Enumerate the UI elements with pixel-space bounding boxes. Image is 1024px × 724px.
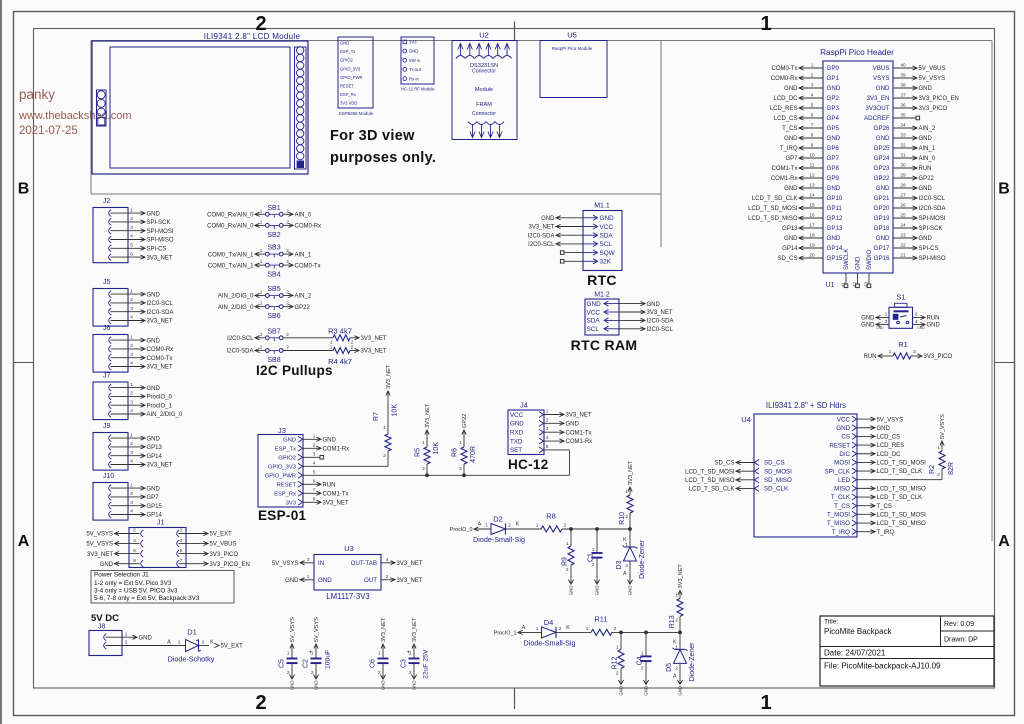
- svg-text:GP19: GP19: [874, 215, 890, 222]
- svg-text:5: 5: [546, 444, 549, 449]
- svg-text:19: 19: [809, 242, 815, 247]
- svg-text:3V3_NET: 3V3_NET: [147, 463, 173, 469]
- svg-text:82R: 82R: [948, 462, 955, 475]
- J9 pin 1 GND: [109, 435, 112, 442]
- svg-text:LCD_CS: LCD_CS: [877, 435, 901, 441]
- svg-text:+: +: [309, 649, 313, 656]
- J2 pin 3 SPI-MOSI: [109, 227, 112, 234]
- svg-text:GND: GND: [784, 86, 798, 92]
- svg-text:GND: GND: [827, 135, 841, 142]
- svg-text:RaspPi Pico Module: RaspPi Pico Module: [552, 46, 593, 51]
- U1 pin 8 GND: [800, 137, 823, 139]
- svg-text:A: A: [998, 533, 1010, 550]
- zone tick bottom: [514, 688, 516, 709]
- M1.1 pin GND: [583, 217, 597, 219]
- J2 pin 1 GND: [109, 210, 112, 217]
- svg-text:GND: GND: [147, 211, 161, 217]
- svg-text:SD_CLK: SD_CLK: [764, 486, 789, 493]
- svg-text:GND: GND: [861, 316, 875, 322]
- svg-text:ESP-01: ESP-01: [258, 508, 307, 523]
- svg-text:T_IRQ: T_IRQ: [877, 530, 895, 536]
- svg-text:1: 1: [625, 489, 628, 494]
- svg-text:1: 1: [178, 640, 181, 645]
- svg-text:GP10: GP10: [827, 195, 843, 202]
- svg-text:OUT: OUT: [364, 577, 377, 584]
- J9 pin 2 GP13: [109, 444, 112, 451]
- svg-text:SQW: SQW: [600, 250, 616, 257]
- svg-text:20: 20: [809, 252, 815, 257]
- svg-text:SD_MOSI: SD_MOSI: [764, 468, 792, 475]
- svg-text:GP17: GP17: [874, 245, 890, 252]
- svg-text:2: 2: [130, 216, 133, 221]
- J5 pin 1 GND: [109, 291, 112, 298]
- svg-text:J3: J3: [278, 426, 286, 435]
- svg-text:T_CS: T_CS: [877, 504, 892, 510]
- diode D2: [474, 527, 479, 531]
- svg-text:VBUS: VBUS: [873, 65, 890, 72]
- J9 pin 3 GP14: [109, 452, 112, 459]
- U3 pin 1 GND: [301, 579, 314, 581]
- LCD screen: [110, 47, 290, 168]
- svg-text:Diode-Zener: Diode-Zener: [689, 642, 696, 682]
- U3 pin 3 IN: [301, 562, 314, 564]
- svg-text:GND: GND: [856, 256, 862, 270]
- U1 pin 37 3V3_EN: [893, 97, 916, 99]
- svg-text:1: 1: [641, 650, 644, 655]
- svg-text:CS: CS: [841, 434, 850, 441]
- svg-text:J8: J8: [98, 624, 106, 631]
- svg-text:T_IRQ: T_IRQ: [832, 529, 850, 536]
- svg-text:COM0-Rx: COM0-Rx: [771, 76, 798, 82]
- svg-text:GND: GND: [566, 422, 580, 428]
- svg-text:5V DC: 5V DC: [91, 613, 119, 624]
- J6 pin 1 GND: [109, 337, 112, 344]
- svg-text:GND: GND: [876, 85, 890, 92]
- junction R13/D5: [678, 631, 682, 635]
- svg-text:SWCLK: SWCLK: [844, 249, 850, 270]
- svg-text:3: 3: [130, 352, 133, 357]
- svg-text:LCD_T_SD_MISO: LCD_T_SD_MISO: [877, 521, 927, 527]
- svg-text:2: 2: [287, 670, 290, 675]
- svg-text:17: 17: [809, 222, 815, 227]
- svg-text:I2C0-SDA: I2C0-SDA: [226, 349, 253, 355]
- connector J4 body: [508, 410, 544, 455]
- svg-text:ESP_Rx: ESP_Rx: [340, 92, 357, 97]
- svg-text:1: 1: [330, 345, 333, 350]
- U1 pin 19 GP14: [800, 247, 823, 249]
- U1 pin 35 ADCREF: [893, 117, 916, 119]
- resistor R12: [620, 632, 622, 649]
- connector J5 body: [93, 289, 128, 327]
- svg-text:1: 1: [760, 692, 771, 714]
- svg-text:LCD_RES: LCD_RES: [770, 106, 798, 112]
- svg-text:4: 4: [130, 234, 133, 239]
- svg-text:C5: C5: [279, 659, 286, 668]
- svg-text:35: 35: [900, 112, 906, 117]
- zone tick left: [14, 362, 34, 364]
- svg-text:GND: GND: [827, 235, 841, 242]
- svg-text:AIN_2: AIN_2: [919, 126, 936, 132]
- svg-text:SD_CS: SD_CS: [764, 460, 785, 467]
- svg-text:ProcIO_0: ProcIO_0: [450, 527, 473, 533]
- svg-text:LCD_T_SD_CLK: LCD_T_SD_CLK: [752, 196, 798, 202]
- svg-text:J4: J4: [520, 401, 528, 410]
- svg-text:GND: GND: [340, 41, 349, 46]
- svg-text:K: K: [516, 522, 520, 528]
- svg-text:GP6: GP6: [827, 145, 840, 152]
- U1 pin 17 GP13: [800, 227, 823, 229]
- svg-text:GP9: GP9: [827, 175, 840, 182]
- J1 pin 4 5V_VSYS: [141, 540, 144, 547]
- svg-text:GP14: GP14: [827, 245, 843, 252]
- svg-text:OUT-TAB: OUT-TAB: [351, 560, 377, 567]
- svg-text:VCC: VCC: [600, 224, 614, 231]
- svg-text:J5: J5: [103, 279, 111, 286]
- svg-text:SD_MISO: SD_MISO: [764, 477, 792, 484]
- svg-text:36: 36: [900, 102, 906, 107]
- svg-text:AIN_1: AIN_1: [919, 146, 936, 152]
- svg-text:GND: GND: [647, 302, 661, 308]
- svg-text:SPI-CS: SPI-CS: [919, 246, 939, 252]
- junction R9: [569, 527, 573, 531]
- svg-text:AIN_0: AIN_0: [919, 156, 936, 162]
- svg-text:3V3_NET: 3V3_NET: [147, 319, 173, 325]
- svg-text:3V3_NET: 3V3_NET: [386, 364, 392, 389]
- svg-text:RUN: RUN: [864, 354, 877, 360]
- svg-text:6: 6: [811, 112, 814, 117]
- svg-text:S1: S1: [896, 293, 905, 302]
- svg-text:GND: GND: [784, 236, 798, 242]
- svg-text:GP5: GP5: [827, 125, 840, 132]
- svg-text:13: 13: [809, 182, 815, 187]
- svg-text:1: 1: [260, 290, 263, 295]
- svg-text:GP3: GP3: [827, 105, 840, 112]
- U1 pin 5 GP3: [800, 107, 823, 109]
- svg-text:3: 3: [313, 451, 316, 456]
- svg-text:LCD_T_SD_CLK: LCD_T_SD_CLK: [877, 469, 923, 475]
- svg-text:RESET: RESET: [277, 483, 297, 489]
- J6 pin 3 COM0-Tx: [109, 354, 112, 361]
- svg-text:I2C0-SDA: I2C0-SDA: [527, 233, 554, 239]
- svg-text:1: 1: [485, 523, 488, 528]
- resistor R13: [678, 590, 682, 595]
- svg-text:5V_VSYS: 5V_VSYS: [940, 414, 946, 439]
- switch S1 body: [889, 307, 913, 328]
- svg-text:GND: GND: [290, 681, 295, 691]
- svg-text:Rev: 0.09: Rev: 0.09: [944, 621, 974, 628]
- svg-text:GND: GND: [587, 301, 602, 308]
- svg-text:2: 2: [675, 617, 678, 622]
- svg-text:RTC: RTC: [587, 272, 617, 288]
- svg-text:TXD: TXD: [510, 438, 523, 445]
- svg-text:4: 4: [130, 315, 133, 320]
- svg-text:Diode-Small-Sig: Diode-Small-Sig: [473, 535, 525, 544]
- svg-text:29: 29: [900, 172, 906, 177]
- svg-text:1: 1: [546, 409, 549, 414]
- svg-text:4: 4: [130, 408, 133, 413]
- svg-text:2: 2: [130, 491, 133, 496]
- svg-text:7: 7: [811, 122, 814, 127]
- svg-text:6: 6: [313, 478, 316, 483]
- svg-text:GND: GND: [876, 185, 890, 192]
- svg-text:AIN_2: AIN_2: [295, 294, 312, 300]
- svg-text:D5: D5: [666, 663, 673, 672]
- svg-text:10K: 10K: [433, 442, 440, 455]
- svg-text:3V3_PICO: 3V3_PICO: [919, 106, 948, 112]
- svg-text:39: 39: [900, 72, 906, 77]
- svg-text:1: 1: [586, 626, 589, 631]
- power selection note box: [91, 571, 234, 604]
- svg-text:GND: GND: [784, 186, 798, 192]
- svg-text:RUN: RUN: [323, 482, 336, 488]
- svg-text:LCD_DC: LCD_DC: [877, 452, 902, 458]
- svg-text:15: 15: [809, 202, 815, 207]
- svg-text:R9: R9: [562, 557, 569, 566]
- svg-text:6: 6: [133, 548, 136, 553]
- svg-text:GP15: GP15: [147, 504, 163, 510]
- svg-text:R5: R5: [415, 448, 422, 457]
- svg-text:T_MISO: T_MISO: [827, 520, 850, 527]
- svg-text:LCD_T_SD_MISO: LCD_T_SD_MISO: [877, 487, 927, 493]
- svg-text:I2C0-SCL: I2C0-SCL: [919, 196, 946, 202]
- svg-text:Power Selection J1: Power Selection J1: [94, 572, 149, 579]
- regulator U3 body: [314, 555, 381, 591]
- U1 pin 24 GP18: [893, 227, 916, 229]
- svg-text:2: 2: [313, 442, 316, 447]
- svg-text:5V_VSYS: 5V_VSYS: [877, 417, 904, 423]
- svg-text:AIN_2/DIG_0: AIN_2/DIG_0: [147, 412, 183, 418]
- svg-text:3V3_NET: 3V3_NET: [361, 349, 387, 355]
- capacitor C1: [596, 529, 598, 553]
- svg-text:2: 2: [255, 692, 266, 714]
- svg-text:1: 1: [422, 440, 425, 445]
- svg-text:470R: 470R: [470, 446, 477, 463]
- U1 pin 28 GND: [893, 187, 916, 189]
- J10 pin 2 GP7: [109, 494, 112, 501]
- U1 pin 18 GND: [800, 237, 823, 239]
- J7 pin 2 ProcIO_0: [109, 393, 112, 400]
- svg-text:LM1117-3V3: LM1117-3V3: [326, 592, 370, 601]
- U1 pin 2 GP1: [800, 77, 823, 79]
- svg-text:D4: D4: [544, 618, 554, 627]
- svg-text:5: 5: [180, 548, 183, 553]
- svg-text:U3: U3: [344, 544, 354, 553]
- svg-text:2: 2: [202, 640, 205, 645]
- svg-text:GP25: GP25: [874, 145, 890, 152]
- svg-text:8: 8: [811, 132, 814, 137]
- svg-text:GND: GND: [919, 236, 933, 242]
- svg-text:2: 2: [508, 523, 511, 528]
- svg-text:SCL: SCL: [600, 241, 613, 248]
- svg-text:2: 2: [625, 514, 628, 519]
- svg-text:23: 23: [900, 232, 906, 237]
- svg-text:GND: GND: [919, 186, 933, 192]
- svg-text:33: 33: [900, 132, 906, 137]
- svg-text:Date: 24/07/2021: Date: 24/07/2021: [824, 649, 886, 658]
- svg-text:3V3_NET: 3V3_NET: [147, 255, 173, 261]
- svg-text:B: B: [18, 181, 30, 198]
- svg-text:2: 2: [286, 332, 289, 337]
- svg-text:25: 25: [900, 212, 906, 217]
- svg-text:1: 1: [180, 528, 183, 533]
- svg-text:2: 2: [130, 343, 133, 348]
- connector J9 body: [93, 433, 128, 471]
- svg-text:AIN_1: AIN_1: [295, 252, 312, 258]
- svg-text:1: 1: [125, 631, 128, 636]
- svg-text:1: 1: [260, 259, 263, 264]
- solder bridge SB8: [256, 350, 265, 352]
- svg-text:5: 5: [130, 243, 133, 248]
- svg-text:10: 10: [809, 152, 815, 157]
- svg-text:5V_VSYS: 5V_VSYS: [86, 532, 113, 538]
- svg-text:3: 3: [307, 557, 310, 562]
- svg-text:30: 30: [900, 162, 906, 167]
- svg-text:2: 2: [559, 626, 562, 631]
- svg-text:GND: GND: [827, 185, 841, 192]
- svg-text:COM1-Rx: COM1-Rx: [323, 446, 350, 452]
- svg-text:AIN_0: AIN_0: [295, 212, 312, 218]
- svg-text:3V3_NET: 3V3_NET: [412, 617, 418, 642]
- svg-text:ADCREF: ADCREF: [864, 115, 890, 122]
- svg-text:LCD_T_SD_MISO: LCD_T_SD_MISO: [685, 478, 735, 484]
- svg-text:3V3_NET: 3V3_NET: [397, 578, 423, 584]
- svg-text:GND: GND: [147, 338, 161, 344]
- capacitor C2: [314, 644, 318, 649]
- svg-text:ProcIO_0: ProcIO_0: [147, 395, 173, 401]
- svg-text:GPIO_PWR: GPIO_PWR: [340, 75, 363, 80]
- svg-text:COM0_Rx/AIN_0: COM0_Rx/AIN_0: [207, 224, 254, 230]
- LCD module outline: [92, 41, 308, 174]
- J6 pin 2 COM0-Rx: [109, 346, 112, 353]
- svg-text:R8: R8: [546, 512, 556, 521]
- svg-text:24: 24: [900, 222, 906, 227]
- svg-text:GND: GND: [600, 215, 615, 222]
- connector J3 body: [258, 435, 303, 508]
- svg-text:3V3: 3V3: [409, 40, 417, 45]
- svg-text:GP22: GP22: [295, 305, 311, 311]
- resistor R8: [506, 528, 542, 530]
- svg-text:GPIO2: GPIO2: [340, 58, 353, 63]
- svg-text:5V_VSYS: 5V_VSYS: [919, 76, 946, 82]
- svg-text:T_MOSI: T_MOSI: [827, 512, 850, 519]
- svg-text:GP22: GP22: [874, 175, 890, 182]
- svg-text:LCD_T_SD_MISO: LCD_T_SD_MISO: [748, 216, 798, 222]
- svg-text:12: 12: [809, 172, 815, 177]
- svg-text:T_CS: T_CS: [834, 503, 850, 510]
- zone tick right: [995, 362, 1015, 364]
- svg-text:GP7: GP7: [785, 156, 798, 162]
- svg-text:1-2 only = Ext 5V, Pico 3V3: 1-2 only = Ext 5V, Pico 3V3: [94, 580, 172, 587]
- svg-text:COM0-Rx: COM0-Rx: [147, 347, 174, 353]
- svg-text:5: 5: [313, 469, 316, 474]
- svg-text:GND: GND: [139, 635, 153, 641]
- svg-text:SB4: SB4: [267, 272, 280, 279]
- J5 pin 2 I2C0-SCL: [109, 300, 112, 307]
- solder bridge SB6: [256, 306, 265, 308]
- svg-text:COM0-Rx: COM0-Rx: [295, 224, 322, 230]
- ESP8266 mini module: [338, 37, 373, 108]
- connector J2 body: [93, 208, 128, 263]
- J1 pin 3 5V_VBUS: [177, 540, 180, 547]
- svg-text:GP13: GP13: [782, 226, 798, 232]
- svg-text:2: 2: [546, 417, 549, 422]
- svg-text:2: 2: [625, 563, 628, 568]
- svg-text:38: 38: [900, 82, 906, 87]
- svg-text:J7: J7: [103, 373, 111, 380]
- svg-text:I2C0-SCL: I2C0-SCL: [227, 336, 254, 342]
- svg-text:3V3_NET: 3V3_NET: [566, 413, 592, 419]
- svg-text:3V3_NET: 3V3_NET: [628, 460, 634, 485]
- svg-text:ProcIO_1: ProcIO_1: [147, 403, 173, 409]
- svg-text:GP7: GP7: [827, 155, 840, 162]
- svg-text:GP0: GP0: [827, 65, 840, 72]
- svg-text:GP1: GP1: [827, 75, 840, 82]
- svg-text:1: 1: [260, 248, 263, 253]
- junction R12: [619, 631, 623, 635]
- svg-text:2: 2: [383, 453, 386, 458]
- svg-text:2: 2: [915, 312, 918, 317]
- J7 pin 4 AIN_2/DIG_0: [109, 411, 112, 418]
- svg-text:4: 4: [546, 435, 549, 440]
- resistor R6: [462, 430, 466, 435]
- svg-text:ESP_Rx: ESP_Rx: [274, 492, 296, 498]
- svg-text:HC-12: HC-12: [508, 457, 549, 472]
- svg-text:1: 1: [566, 541, 569, 546]
- svg-text:3-4 only = USB 5V, PICO 3v3: 3-4 only = USB 5V, PICO 3v3: [94, 587, 178, 594]
- svg-text:A: A: [623, 571, 627, 577]
- U1 pin 1 GP0: [800, 67, 823, 69]
- svg-text:VCC: VCC: [587, 309, 601, 316]
- svg-text:VSYS: VSYS: [873, 75, 890, 82]
- capacitor C6: [381, 644, 385, 649]
- svg-text:SW in: SW in: [409, 58, 421, 63]
- svg-text:panky: panky: [19, 87, 55, 102]
- svg-text:LCD_T_SD_CLK: LCD_T_SD_CLK: [877, 495, 923, 501]
- svg-text:4: 4: [386, 557, 389, 562]
- junction C1: [595, 527, 599, 531]
- svg-text:RUN: RUN: [919, 166, 932, 172]
- U1 pin 26 GP20: [893, 207, 916, 209]
- M1.1 pin 32K: [583, 260, 597, 262]
- solder bridge SB5: [256, 295, 265, 297]
- svg-text:Title:: Title:: [824, 619, 839, 626]
- svg-text:GND: GND: [678, 686, 683, 696]
- svg-text:J10: J10: [103, 473, 114, 480]
- svg-text:GND: GND: [100, 562, 114, 568]
- svg-text:1: 1: [616, 644, 619, 649]
- svg-text:1: 1: [260, 332, 263, 337]
- wire D5 top: [679, 632, 681, 637]
- svg-text:1: 1: [130, 334, 133, 339]
- svg-text:R6: R6: [452, 448, 459, 457]
- svg-text:1: 1: [675, 644, 678, 649]
- RTC module M1.1 body: [583, 211, 622, 271]
- svg-text:I2C0-SCL: I2C0-SCL: [647, 327, 674, 333]
- svg-text:3V3_NET: 3V3_NET: [678, 564, 684, 589]
- svg-text:8: 8: [313, 496, 316, 501]
- J1 pin 6 3V3_NET: [141, 550, 144, 557]
- svg-text:C3: C3: [401, 659, 408, 668]
- svg-text:A: A: [522, 625, 526, 631]
- svg-text:SB5: SB5: [267, 286, 280, 293]
- svg-text:GP18: GP18: [874, 225, 890, 232]
- svg-text:2: 2: [641, 665, 644, 670]
- svg-text:3: 3: [130, 225, 133, 230]
- svg-text:COM0-Tx: COM0-Tx: [147, 356, 173, 362]
- svg-text:1: 1: [260, 208, 263, 213]
- connector J7 body: [93, 382, 128, 420]
- svg-text:I2C0-SDA: I2C0-SDA: [919, 206, 946, 212]
